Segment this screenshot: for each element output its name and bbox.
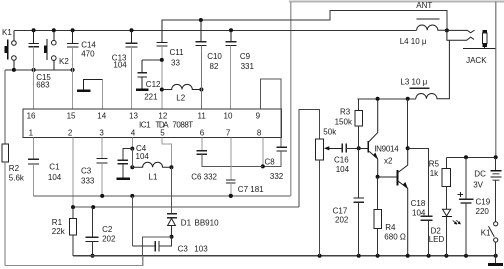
- svg-text:332: 332: [270, 172, 284, 181]
- resistor R5: [445, 157, 447, 168]
- junction on antenna line at C10: [199, 18, 203, 22]
- svg-text:331: 331: [241, 62, 255, 71]
- potentiometer 50k: [299, 109, 319, 207]
- svg-text:LED: LED: [429, 235, 445, 244]
- pin 4 lead: [131, 137, 133, 148]
- wire: main bottom ground bus: [73, 255, 496, 257]
- resistor R3: [358, 99, 360, 111]
- svg-text:R4: R4: [385, 223, 396, 232]
- svg-text:1k: 1k: [430, 169, 439, 178]
- IC pin 16 lead: [33, 70, 35, 109]
- pin 2 lead: [72, 137, 74, 207]
- svg-text:22k: 22k: [52, 227, 66, 236]
- svg-text:104: 104: [136, 152, 150, 161]
- inductor L1: [130, 165, 134, 169]
- IC pin 8 lead and junction: [262, 137, 264, 166]
- svg-text:103: 103: [194, 245, 208, 254]
- svg-text:33: 33: [171, 59, 180, 68]
- battery DC 3V: [495, 157, 497, 170]
- svg-text:202: 202: [102, 235, 116, 244]
- wire: battery rail: [446, 156, 495, 158]
- capacitor C9: [226, 30, 237, 45]
- svg-text:2: 2: [68, 129, 73, 138]
- pushbutton K2: [44, 30, 56, 70]
- pin 5 jog wire: [162, 137, 172, 167]
- capacitor C12: [142, 59, 162, 61]
- svg-text:DC: DC: [474, 169, 486, 178]
- svg-text:220: 220: [476, 207, 490, 216]
- svg-text:104: 104: [336, 165, 350, 174]
- pin 9 loop wire: [261, 79, 282, 147]
- wire: varactor left branch to lower ground: [143, 237, 172, 266]
- capacitor C17: [358, 148, 360, 198]
- svg-text:C7 181: C7 181: [238, 185, 264, 194]
- svg-text:R3: R3: [340, 108, 351, 117]
- svg-text:10: 10: [224, 111, 233, 120]
- IC1 TDA7088T box: [23, 109, 282, 137]
- svg-text:L3 10 μ: L3 10 μ: [400, 78, 427, 87]
- svg-text:C6 332: C6 332: [191, 173, 217, 182]
- svg-text:13: 13: [129, 111, 138, 120]
- svg-text:K2: K2: [59, 57, 69, 66]
- svg-text:IC1: IC1: [139, 120, 151, 129]
- svg-text:R5: R5: [429, 159, 440, 168]
- svg-text:8: 8: [257, 129, 262, 138]
- svg-text:14: 14: [97, 111, 106, 120]
- capacitor C4 with ground: [123, 149, 132, 161]
- earphone jack body: [483, 30, 487, 33]
- capacitor C2: [92, 207, 94, 237]
- svg-text:C17: C17: [333, 206, 348, 215]
- svg-text:470: 470: [81, 49, 95, 58]
- capacitor C16: [342, 143, 346, 152]
- wire: K1/K2 bottom bus: [5, 69, 73, 71]
- svg-text:7: 7: [226, 129, 231, 138]
- svg-text:3: 3: [99, 129, 104, 138]
- svg-text:5.6k: 5.6k: [9, 174, 25, 183]
- svg-text:202: 202: [335, 216, 349, 225]
- svg-text:82: 82: [210, 62, 219, 71]
- capacitor C8: [277, 147, 288, 151]
- capacitor C1 on pin 1: [33, 137, 35, 159]
- svg-text:9: 9: [256, 111, 261, 120]
- capacitor C3 (103): [131, 196, 133, 246]
- capacitor C19 (electrolytic): [465, 157, 467, 199]
- wire: signal bus y196: [34, 195, 291, 197]
- resistor R1: [72, 207, 74, 218]
- svg-text:3V: 3V: [473, 180, 483, 189]
- svg-text:D1: D1: [181, 218, 192, 227]
- svg-text:L1: L1: [149, 173, 158, 182]
- capacitor C3 (333) on pin 3: [101, 137, 103, 158]
- pushbutton K1: [4, 30, 16, 70]
- resistor R2: [4, 70, 6, 144]
- svg-text:150k: 150k: [335, 118, 353, 127]
- svg-text:C8: C8: [265, 157, 276, 166]
- enclosure left edge riser: [290, 2, 292, 196]
- capacitor C18: [408, 148, 429, 216]
- svg-text:1: 1: [29, 129, 34, 138]
- svg-text:BB910: BB910: [195, 218, 220, 227]
- svg-text:C9: C9: [240, 52, 251, 61]
- svg-text:K1: K1: [2, 28, 12, 37]
- IC1 pin numbers bottom row: [29, 129, 262, 138]
- wire: audio bus y207: [73, 206, 299, 208]
- ground bar bottom right: [495, 256, 497, 263]
- svg-text:16: 16: [27, 111, 36, 120]
- inductor L2: [160, 88, 164, 92]
- svg-text:11: 11: [198, 111, 207, 120]
- svg-text:C14: C14: [81, 40, 96, 49]
- svg-text:x2: x2: [384, 157, 393, 166]
- enclosure top border: [289, 0, 504, 2]
- svg-text:6: 6: [200, 129, 205, 138]
- junctions on top rail: [32, 28, 449, 32]
- svg-text:333: 333: [81, 177, 95, 186]
- svg-text:ANT: ANT: [416, 1, 432, 10]
- transistor Q1 IN9014: [359, 147, 369, 149]
- svg-text:5: 5: [160, 129, 165, 138]
- svg-text:L4 10 μ: L4 10 μ: [400, 37, 427, 46]
- svg-text:683: 683: [36, 80, 50, 89]
- svg-text:104: 104: [48, 173, 62, 182]
- wire: lower ground link: [5, 256, 143, 266]
- svg-text:C19: C19: [476, 198, 491, 207]
- capacitor C14: [67, 30, 79, 47]
- svg-text:R2: R2: [9, 164, 20, 173]
- switch K1 (power): [494, 222, 498, 226]
- svg-text:C3: C3: [178, 245, 189, 254]
- svg-text:C3: C3: [81, 167, 92, 176]
- svg-text:C18: C18: [411, 199, 426, 208]
- varactor D1 BB910: [170, 167, 172, 213]
- wire: supply rail of amplifier: [357, 98, 415, 100]
- node: R3/C16/base junction: [357, 146, 361, 150]
- IC pin 15 lead: [72, 70, 74, 109]
- svg-text:680 Ω: 680 Ω: [384, 233, 406, 242]
- IC1 pin numbers top row: [27, 111, 261, 120]
- LED D2: [443, 209, 451, 216]
- svg-text:15: 15: [67, 111, 76, 120]
- svg-text:C16: C16: [334, 155, 349, 164]
- svg-text:50k: 50k: [323, 128, 337, 137]
- svg-text:104: 104: [113, 61, 127, 70]
- svg-text:104: 104: [412, 209, 426, 218]
- svg-text:C1: C1: [49, 162, 60, 171]
- svg-text:IN9014: IN9014: [374, 145, 399, 154]
- earphone jack contacts: [447, 30, 475, 33]
- ground at pin 14: [101, 80, 103, 110]
- capacitor C15: [28, 30, 38, 46]
- capacitor C13: [126, 30, 138, 47]
- capacitor C7 and pin 7 lead: [230, 137, 232, 180]
- svg-text:C11: C11: [170, 48, 185, 57]
- capacitor C11: [156, 20, 167, 46]
- svg-text:221: 221: [144, 93, 158, 102]
- svg-text:C10: C10: [207, 52, 222, 61]
- svg-text:L2: L2: [176, 93, 185, 102]
- enclosure right edge riser (jack sleeve to battery rail): [495, 2, 497, 158]
- svg-text:R1: R1: [52, 218, 63, 227]
- capacitor C6: [201, 137, 203, 150]
- wire: antenna line: [162, 11, 447, 31]
- svg-text:12: 12: [158, 111, 167, 120]
- transistor Q2: [378, 176, 398, 178]
- svg-text:K1: K1: [481, 229, 491, 238]
- resistor R4: [377, 177, 379, 210]
- svg-text:C2: C2: [102, 225, 113, 234]
- svg-text:JACK: JACK: [466, 56, 487, 65]
- wire: main top rail: [14, 29, 417, 31]
- capacitor C10: [196, 20, 207, 46]
- svg-text:C12: C12: [146, 80, 161, 89]
- svg-text:4: 4: [131, 129, 136, 138]
- svg-text:7088T: 7088T: [172, 120, 193, 129]
